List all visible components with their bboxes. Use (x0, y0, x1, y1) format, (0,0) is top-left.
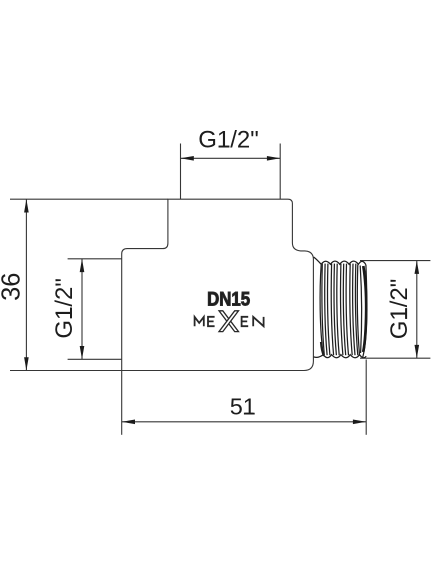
arrow right down (415, 345, 420, 358)
dimension line 51 (122, 421, 367, 423)
label G1/2 inner (51, 278, 78, 339)
extension line 51 left (121, 371, 123, 435)
svg-text:DN15: DN15 (207, 290, 250, 311)
thread top scallops (321, 261, 366, 265)
extension line top-left (180, 144, 182, 200)
logo letter N (253, 317, 263, 326)
svg-text:G1/2": G1/2" (198, 126, 259, 153)
arrow top G1/2 right (267, 156, 280, 161)
label G1/2 right (386, 279, 413, 340)
thread cusp accent (321, 342, 324, 356)
thread end edge (363, 265, 367, 357)
thread end inner arc 2 (357, 265, 359, 355)
thread end inner arc (360, 266, 361, 354)
extension line right bottom (360, 357, 430, 359)
label G1/2 top (198, 126, 259, 153)
thread runout bottom (314, 355, 324, 358)
arrow 36 up (24, 199, 29, 212)
thread left cusp (320, 264, 323, 354)
thread crest lines group 1 (322, 264, 324, 356)
svg-text:36: 36 (0, 273, 25, 301)
thread crest lines group 3 (341, 264, 343, 356)
svg-text:51: 51 (230, 394, 256, 420)
arrow top G1/2 left (181, 156, 194, 161)
extension line top-right (279, 144, 281, 200)
arrow inner down (80, 346, 85, 359)
arrow right up (415, 261, 420, 274)
arrow 51 right (353, 420, 366, 425)
arrowheads (24, 156, 419, 424)
arrow 51 left (122, 420, 135, 425)
svg-text:G1/2": G1/2" (386, 279, 413, 340)
logo letter X (219, 311, 239, 332)
label 51 (230, 394, 256, 420)
thread bottom scallops (323, 355, 366, 358)
dimension line 36 (25, 199, 27, 370)
logo letter E2 (242, 317, 249, 326)
thread (314, 257, 367, 358)
dimension line right G1/2 (416, 261, 418, 359)
thread end crescent (363, 266, 366, 352)
logo letter E1 (208, 317, 215, 326)
logo letter M (195, 317, 204, 326)
dimension line inner G1/2 (81, 259, 83, 360)
arrow 36 down (24, 357, 29, 370)
thread runout top (314, 257, 322, 264)
thread crest lines group 2 (331, 264, 333, 356)
extension line 51 right (365, 360, 367, 435)
extension line 36 bottom (10, 370, 122, 372)
svg-text:G1/2": G1/2" (51, 278, 78, 339)
body outline (122, 199, 314, 370)
extension line right top (360, 260, 430, 262)
dimension line top G1/2 (181, 157, 281, 159)
logo MEXEN (195, 311, 264, 332)
extension line inner top (68, 258, 122, 260)
extension line 36 top (10, 198, 168, 200)
thread crest lines group 4 (350, 264, 352, 356)
extension line inner bottom (68, 358, 122, 360)
arrow inner up (80, 259, 85, 272)
